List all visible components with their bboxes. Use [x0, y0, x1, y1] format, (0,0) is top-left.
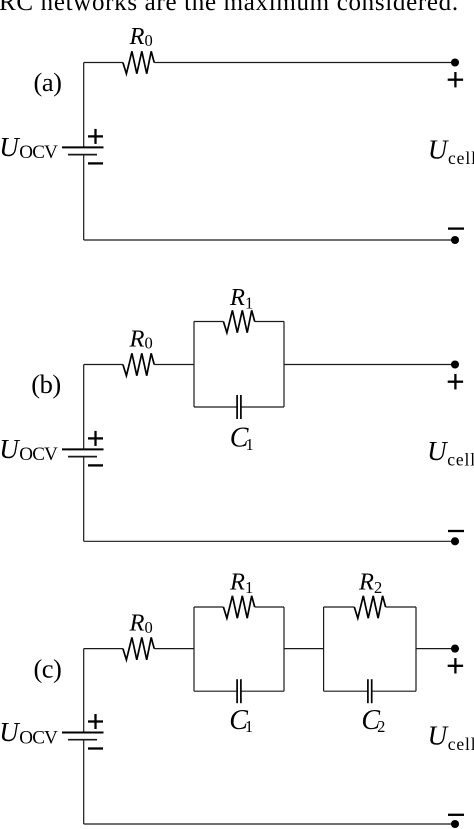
svg-text:U: U	[427, 436, 448, 466]
svg-text:U: U	[0, 717, 20, 747]
svg-text:U: U	[0, 132, 20, 162]
svg-text:cell: cell	[448, 734, 474, 754]
svg-text:OCV: OCV	[19, 444, 58, 465]
svg-text:OCV: OCV	[19, 727, 58, 748]
svg-text:(b): (b)	[31, 369, 60, 399]
svg-text:U: U	[428, 135, 449, 165]
svg-text:cell: cell	[447, 449, 474, 469]
svg-text:RC networks are the maximum co: RC networks are the maximum considered.	[0, 0, 459, 16]
svg-text:(a): (a)	[34, 67, 62, 97]
svg-text:U: U	[0, 434, 20, 464]
svg-text:(c): (c)	[33, 654, 61, 684]
svg-text:cell: cell	[448, 148, 474, 168]
svg-text:OCV: OCV	[19, 142, 58, 163]
svg-text:U: U	[428, 721, 449, 751]
